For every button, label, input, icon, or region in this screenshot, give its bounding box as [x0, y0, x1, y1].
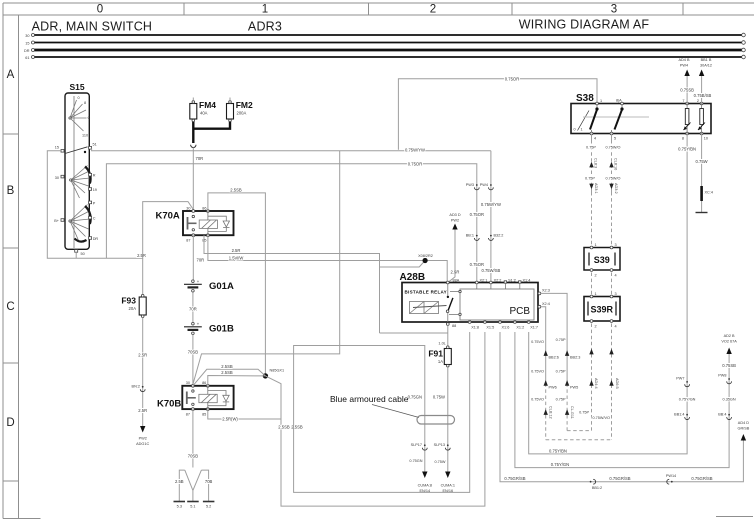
svg-text:0.75GN: 0.75GN [408, 395, 422, 400]
left inner border [18, 15, 20, 519]
K70B coil [199, 394, 217, 402]
pin 88 [446, 323, 449, 326]
svg-text:0.75W: 0.75W [696, 159, 708, 164]
svg-text:BB:1: BB:1 [466, 233, 474, 237]
wire K70B-30 to junction [193, 369, 266, 386]
svg-text:AD3:1: AD3:1 [594, 183, 598, 194]
wire AD4 to PCB X1:6 [500, 332, 743, 482]
S15 fan 2 thick arc [85, 167, 91, 184]
svg-text:0.75OR: 0.75OR [470, 262, 484, 267]
S38 pin 2 [700, 102, 703, 105]
wire branch to junction X08 [380, 261, 426, 268]
svg-text:BB1:2: BB1:2 [592, 486, 602, 490]
svg-text:0.75OR: 0.75OR [470, 212, 484, 217]
svg-text:0.75SB: 0.75SB [722, 363, 736, 368]
relays K70A K70B batteries grounds [121, 187, 485, 508]
left wires [47, 76, 597, 384]
bus bars [24, 33, 745, 60]
svg-text:86: 86 [202, 381, 206, 385]
svg-text:G01A: G01A [209, 281, 234, 292]
svg-text:2.5B: 2.5B [175, 479, 184, 484]
header bottom line [3, 14, 754, 16]
relay K70A [183, 211, 234, 235]
svg-text:0.75P: 0.75P [586, 146, 596, 150]
wire F91 down through cable [447, 367, 449, 472]
S39 body [584, 248, 620, 271]
wire S15-51 feed rail [92, 149, 491, 151]
connector CL8:3 [589, 162, 593, 168]
fuse F91 [444, 349, 451, 365]
svg-text:BB2:3: BB2:3 [570, 356, 580, 360]
svg-text:4: 4 [615, 274, 617, 278]
svg-text:5.2: 5.2 [206, 505, 211, 509]
connector PW4 [490, 184, 492, 186]
svg-text:PW4: PW4 [680, 64, 688, 68]
S15 fan 3 thick arc lower [75, 239, 87, 242]
wire 1.5Vi/W K70A-85 to junction X08 [208, 235, 447, 282]
svg-text:0.75W/VO: 0.75W/VO [592, 416, 610, 420]
svg-text:0.75OR: 0.75OR [505, 76, 519, 81]
wire PCB X2:3 down column [541, 293, 567, 383]
S15 pin 15 [61, 150, 64, 153]
svg-text:FM2: FM2 [236, 100, 253, 110]
svg-text:1A: 1A [438, 359, 443, 364]
svg-text:PW7: PW7 [676, 377, 684, 381]
svg-text:FM4: FM4 [199, 100, 216, 110]
battery G01B [192, 322, 195, 325]
A28B body [402, 283, 538, 323]
fuse FM4 [190, 104, 197, 120]
svg-text:X1:2: X1:2 [516, 326, 524, 330]
svg-text:+: + [197, 279, 200, 284]
svg-text:0.75P: 0.75P [556, 338, 566, 342]
svg-text:4: 4 [615, 325, 617, 329]
svg-text:0.75P: 0.75P [585, 177, 595, 181]
svg-text:CUMA:1: CUMA:1 [441, 484, 455, 488]
wire S38-10 to ground [701, 134, 703, 187]
wire junction down loop to PCB X1:8 [265, 332, 485, 506]
svg-text:BN:2: BN:2 [132, 385, 140, 389]
connector arrow AD3:1 [589, 184, 593, 190]
pin X2:2 [490, 281, 493, 284]
ground [696, 212, 708, 214]
svg-text:P: P [93, 201, 96, 205]
wire F93 branch to K70A [143, 202, 194, 259]
svg-text:20A: 20A [129, 306, 137, 311]
svg-text:50: 50 [81, 252, 85, 256]
ground 5.1 [187, 501, 199, 503]
svg-text:0.75VO: 0.75VO [531, 370, 544, 374]
svg-text:70R: 70R [196, 156, 204, 161]
bus 15 [33, 42, 744, 44]
svg-text:PW2: PW2 [451, 219, 459, 223]
ground 5.3 [174, 501, 186, 503]
S39 S39R columns [531, 134, 620, 440]
svg-text:0.75P: 0.75P [556, 398, 566, 402]
svg-text:EN/14: EN/14 [420, 489, 431, 493]
wire 2.5R K70A to F91 branch [204, 235, 380, 333]
wire junction to K70B-86 [208, 376, 266, 386]
row divider A/B [3, 133, 19, 135]
S15 rotary fan 2 [71, 166, 90, 199]
svg-text:1.0L: 1.0L [438, 342, 445, 346]
K70B internal wires [208, 386, 226, 409]
svg-text:S38: S38 [576, 93, 594, 104]
svg-text:C: C [93, 217, 96, 221]
svg-text:F93: F93 [121, 296, 136, 306]
connector B32:2 [490, 235, 492, 237]
svg-text:85: 85 [202, 413, 206, 417]
svg-text:70R: 70R [189, 307, 197, 312]
svg-text:1: 1 [600, 99, 602, 103]
svg-text:2.5SB: 2.5SB [230, 187, 242, 192]
svg-text:70SB: 70SB [188, 350, 198, 355]
svg-text:3: 3 [615, 292, 617, 296]
svg-text:DR: DR [24, 49, 30, 53]
svg-text:AD2 B: AD2 B [724, 334, 735, 338]
svg-text:2.5R: 2.5R [138, 408, 147, 413]
S38 lamp resistor 2 [701, 104, 703, 109]
K70A internal wires [208, 211, 226, 235]
K70B contact [186, 392, 188, 405]
connector PW14 [671, 481, 673, 483]
svg-text:70R: 70R [197, 258, 205, 263]
A28B PCB [400, 272, 550, 330]
svg-text:XC:4: XC:4 [705, 191, 713, 195]
svg-text:88A: 88A [453, 279, 460, 283]
battery G01A [192, 280, 195, 283]
wire S38-8 to PCB X1:7 [529, 134, 687, 454]
svg-text:8: 8 [682, 137, 684, 141]
svg-text:A: A [7, 69, 15, 81]
svg-text:EN/16: EN/16 [443, 489, 454, 493]
svg-text:0.75P: 0.75P [579, 411, 589, 415]
A28B coil [410, 302, 439, 314]
connector BB:4 [728, 414, 730, 416]
svg-text:A28B: A28B [400, 272, 426, 283]
svg-text:2.5SB: 2.5SB [291, 425, 303, 430]
dashed wire S39R-4 down [611, 324, 613, 440]
svg-text:0.75GR/SB: 0.75GR/SB [609, 476, 630, 481]
svg-text:30: 30 [186, 207, 190, 211]
svg-text:K70A: K70A [156, 211, 180, 222]
svg-text:S1:2: S1:2 [508, 279, 516, 283]
svg-text:+: + [197, 322, 200, 327]
row divider B/C [3, 247, 19, 249]
wire S38-5 down [611, 134, 613, 141]
arrow CUMA:8 [422, 472, 427, 479]
column tick 0/1 [183, 3, 185, 15]
svg-text:1: 1 [581, 128, 583, 132]
S15 main contact lever [65, 147, 88, 154]
svg-text:0: 0 [78, 96, 80, 100]
A28B switch [447, 283, 449, 297]
ground 5.2 [203, 501, 215, 503]
svg-text:2.5SB: 2.5SB [221, 370, 233, 375]
column tick 3/4 [682, 3, 684, 15]
connector BN:2 [142, 386, 144, 388]
connector CL8:10 [609, 162, 613, 168]
svg-text:30: 30 [186, 381, 190, 385]
connector BB1:2 [590, 481, 592, 483]
pin X1:8 [468, 321, 471, 324]
pin X1:2 [514, 321, 517, 324]
svg-text:200A: 200A [237, 111, 247, 116]
S38 pin 5 [610, 132, 613, 135]
S38 pin 4 [590, 132, 593, 135]
svg-text:S39: S39 [594, 255, 610, 265]
S15 rotary fan 3 [70, 205, 90, 242]
A28B armature link [413, 306, 447, 308]
svg-text:C: C [88, 116, 91, 120]
svg-text:2.5SB: 2.5SB [278, 425, 290, 430]
svg-text:0: 0 [97, 4, 103, 16]
svg-text:ADG1C: ADG1C [136, 442, 149, 446]
svg-text:1.5Vi/W: 1.5Vi/W [229, 255, 244, 260]
dashed wires S39 to S39R [591, 273, 593, 296]
connector PW7 [686, 381, 688, 383]
svg-text:VO2 67A: VO2 67A [721, 340, 737, 344]
wire A28B-88 to F91 [447, 325, 449, 347]
svg-text:S39R: S39R [591, 305, 614, 315]
svg-text:AD4 D: AD4 D [738, 421, 749, 425]
row divider C/D [3, 362, 19, 364]
svg-text:0.75VO: 0.75VO [531, 340, 544, 344]
S38 linkage [583, 116, 649, 118]
svg-text:0.75W/O: 0.75W/O [606, 177, 621, 181]
svg-text:B32:2: B32:2 [494, 233, 504, 237]
bottom and right wires [500, 134, 750, 491]
S38 body [571, 104, 711, 134]
svg-text:61: 61 [25, 56, 29, 60]
wire PCB X2:4 down column [541, 307, 546, 384]
svg-text:2.5R: 2.5R [138, 353, 147, 358]
connector arrows on solid columns [544, 350, 548, 356]
connector XC:4 [700, 186, 703, 201]
svg-text:G01B: G01B [209, 324, 234, 335]
svg-text:2.5SB: 2.5SB [221, 364, 233, 369]
pin S1:2 [504, 281, 506, 283]
svg-text:PW14: PW14 [666, 474, 676, 478]
svg-text:2: 2 [595, 274, 597, 278]
S15 pin 50 [75, 250, 78, 253]
left outer border [2, 3, 4, 519]
svg-text:0.75W/YW: 0.75W/YW [481, 202, 501, 207]
dashed wire S39R-2 down [591, 324, 593, 431]
bus 30 [33, 34, 744, 36]
K70A diode [223, 221, 229, 227]
svg-text:2: 2 [697, 99, 699, 103]
svg-text:WIRING DIAGRAM AF: WIRING DIAGRAM AF [519, 18, 650, 32]
svg-text:30: 30 [25, 34, 29, 38]
connector arrow AD3:2 [609, 184, 613, 190]
svg-text:AD4 B: AD4 B [679, 58, 690, 62]
svg-text:0.75GR/SB: 0.75GR/SB [504, 476, 525, 481]
S15 body [65, 93, 89, 249]
cable sheath [417, 416, 455, 425]
svg-text:19: 19 [93, 188, 97, 192]
svg-text:70SB: 70SB [188, 454, 198, 459]
svg-text:X1:4: X1:4 [523, 279, 531, 283]
svg-text:CL8:3: CL8:3 [594, 158, 598, 168]
K70B diode [223, 395, 229, 401]
connector SLP13 [447, 444, 449, 446]
svg-text:PW2: PW2 [139, 437, 147, 441]
ground V split [185, 470, 202, 490]
svg-text:0.35GN: 0.35GN [723, 398, 736, 402]
svg-text:2.5R: 2.5R [137, 253, 146, 258]
svg-text:0.75OR: 0.75OR [408, 162, 422, 167]
svg-text:DR: DR [93, 237, 99, 241]
feed cup connector [191, 145, 196, 148]
wire S15-15 to F93 [47, 151, 142, 297]
thick feed wire from FM2 [193, 122, 230, 129]
svg-text:70B: 70B [205, 479, 213, 484]
junction X08/2R2 [423, 258, 428, 263]
svg-text:1: 1 [595, 243, 597, 247]
bus 61 [33, 56, 744, 58]
dashed wire to S39-1 [591, 192, 593, 246]
svg-text:CLB:12: CLB:12 [549, 406, 553, 419]
S38 pin 8A [621, 102, 624, 105]
svg-text:B: B [7, 185, 15, 197]
S15 pin R [89, 173, 92, 176]
svg-text:X1:8: X1:8 [471, 326, 479, 330]
svg-text:8|A: 8|A [616, 99, 622, 103]
svg-text:K70B: K70B [157, 399, 181, 410]
svg-text:GR/SB: GR/SB [737, 427, 749, 431]
pin 88A [446, 281, 449, 284]
svg-text:X1:6: X1:6 [502, 326, 510, 330]
svg-text:7: 7 [682, 99, 684, 103]
svg-text:0.75GN: 0.75GN [409, 459, 422, 463]
pin X2:3 [538, 292, 541, 295]
svg-text:0.75W/YW: 0.75W/YW [405, 148, 425, 153]
wire 0.75GN loop to PCB X1:5 [294, 332, 470, 492]
svg-text:PW3: PW3 [466, 183, 474, 187]
wire K70B-87 to ground [192, 409, 194, 467]
S15 rotary fan 1 [70, 100, 87, 131]
K70A contact [187, 217, 189, 230]
svg-text:0.75GR/SB: 0.75GR/SB [691, 476, 712, 481]
S38 pin 8 [686, 132, 689, 135]
svg-text:AD6:5: AD6:5 [615, 378, 619, 389]
switch S15 [54, 82, 98, 258]
S38 lever 1 [596, 104, 598, 109]
svg-text:1: 1 [595, 292, 597, 296]
svg-text:4: 4 [594, 137, 596, 141]
dashed link to solid columns [567, 430, 591, 432]
svg-text:F91: F91 [428, 349, 443, 359]
svg-text:86: 86 [202, 207, 206, 211]
S15 pin 19 [89, 188, 92, 191]
svg-text:BB2:6: BB2:6 [549, 356, 559, 360]
svg-text:PW8: PW8 [718, 374, 726, 378]
svg-text:0.75Y/GN: 0.75Y/GN [679, 398, 696, 402]
row divider D/E [3, 480, 19, 482]
svg-text:X2:2: X2:2 [494, 279, 502, 283]
arrow CUMA:1 [445, 472, 450, 479]
S15 pin 30 [61, 175, 64, 178]
svg-text:0.75W: 0.75W [435, 460, 446, 464]
svg-text:110: 110 [82, 134, 88, 138]
svg-text:X08/2R2: X08/2R2 [418, 254, 433, 258]
svg-text:87: 87 [186, 239, 190, 243]
svg-text:X2:4: X2:4 [542, 302, 550, 306]
svg-text:PW5: PW5 [570, 386, 578, 390]
wire K70B-87a loop to PCB X1:8 [208, 409, 281, 419]
svg-text:10: 10 [704, 137, 708, 141]
S15 pin B+ [61, 219, 64, 222]
fuse FM2 [227, 104, 234, 120]
branch wire to cable shield loop [380, 332, 448, 334]
border top line [3, 2, 754, 4]
svg-text:PCB: PCB [509, 306, 530, 317]
armoured cable F91 [294, 325, 470, 493]
pin X1:5 [484, 321, 487, 324]
S15 pin 50 stub [75, 252, 77, 258]
fuse F93 [139, 297, 146, 315]
svg-text:30A/12: 30A/12 [700, 64, 712, 68]
svg-text:X1:7: X1:7 [530, 326, 538, 330]
svg-text:0.75VO: 0.75VO [531, 398, 544, 402]
K70A coil [199, 220, 217, 228]
svg-text:40A: 40A [200, 111, 208, 116]
svg-text:30: 30 [55, 176, 59, 180]
connector PW3 [476, 184, 478, 186]
svg-text:3: 3 [615, 243, 617, 247]
junction N85GX1 [263, 373, 268, 378]
svg-text:0.75W: 0.75W [433, 395, 445, 400]
svg-text:5.3: 5.3 [177, 505, 182, 509]
wire G01B to K70B [192, 335, 194, 386]
svg-text:BB1 B: BB1 B [701, 58, 712, 62]
S15 pin C [89, 216, 92, 219]
svg-text:R: R [93, 174, 96, 178]
svg-text:51: 51 [93, 143, 97, 147]
S39R body [584, 297, 620, 322]
svg-text:SLP17: SLP17 [411, 443, 422, 447]
svg-text:88: 88 [452, 324, 456, 328]
svg-text:C: C [6, 301, 14, 313]
S15 fan 3 thick arc upper [85, 206, 91, 224]
wire 0.75W/YW down to X2:2 [490, 151, 492, 281]
wire S38-4 down [591, 134, 593, 141]
wire branch K70B-30 riser [193, 151, 340, 385]
svg-text:Blue armoured cable: Blue armoured cable [330, 394, 409, 404]
wire AD2 to PCB X1:2 [515, 332, 729, 468]
svg-text:BISTABLE RELAY: BISTABLE RELAY [405, 290, 447, 295]
svg-text:5.1: 5.1 [190, 505, 195, 509]
wire F93 down to PW2 [142, 318, 144, 427]
arrow PW2 ADG1C [140, 426, 145, 433]
bus DR [33, 49, 744, 52]
svg-text:X1:5: X1:5 [486, 326, 494, 330]
svg-text:X2:3: X2:3 [542, 289, 550, 293]
svg-text:0.75W/SB: 0.75W/SB [481, 268, 500, 273]
connector BB:1 [476, 235, 478, 237]
svg-text:0.75W/O: 0.75W/O [606, 146, 621, 150]
S38 lamp resistor 1 [686, 104, 688, 109]
svg-text:ADR3: ADR3 [248, 20, 282, 34]
svg-text:B+: B+ [54, 219, 60, 223]
svg-text:15: 15 [55, 146, 59, 150]
PCB box [460, 289, 534, 320]
svg-text:15: 15 [25, 41, 29, 45]
bottom right line [716, 516, 753, 518]
svg-text:0.75Y/BN: 0.75Y/BN [549, 448, 567, 453]
svg-text:BB1:4: BB1:4 [674, 413, 684, 417]
